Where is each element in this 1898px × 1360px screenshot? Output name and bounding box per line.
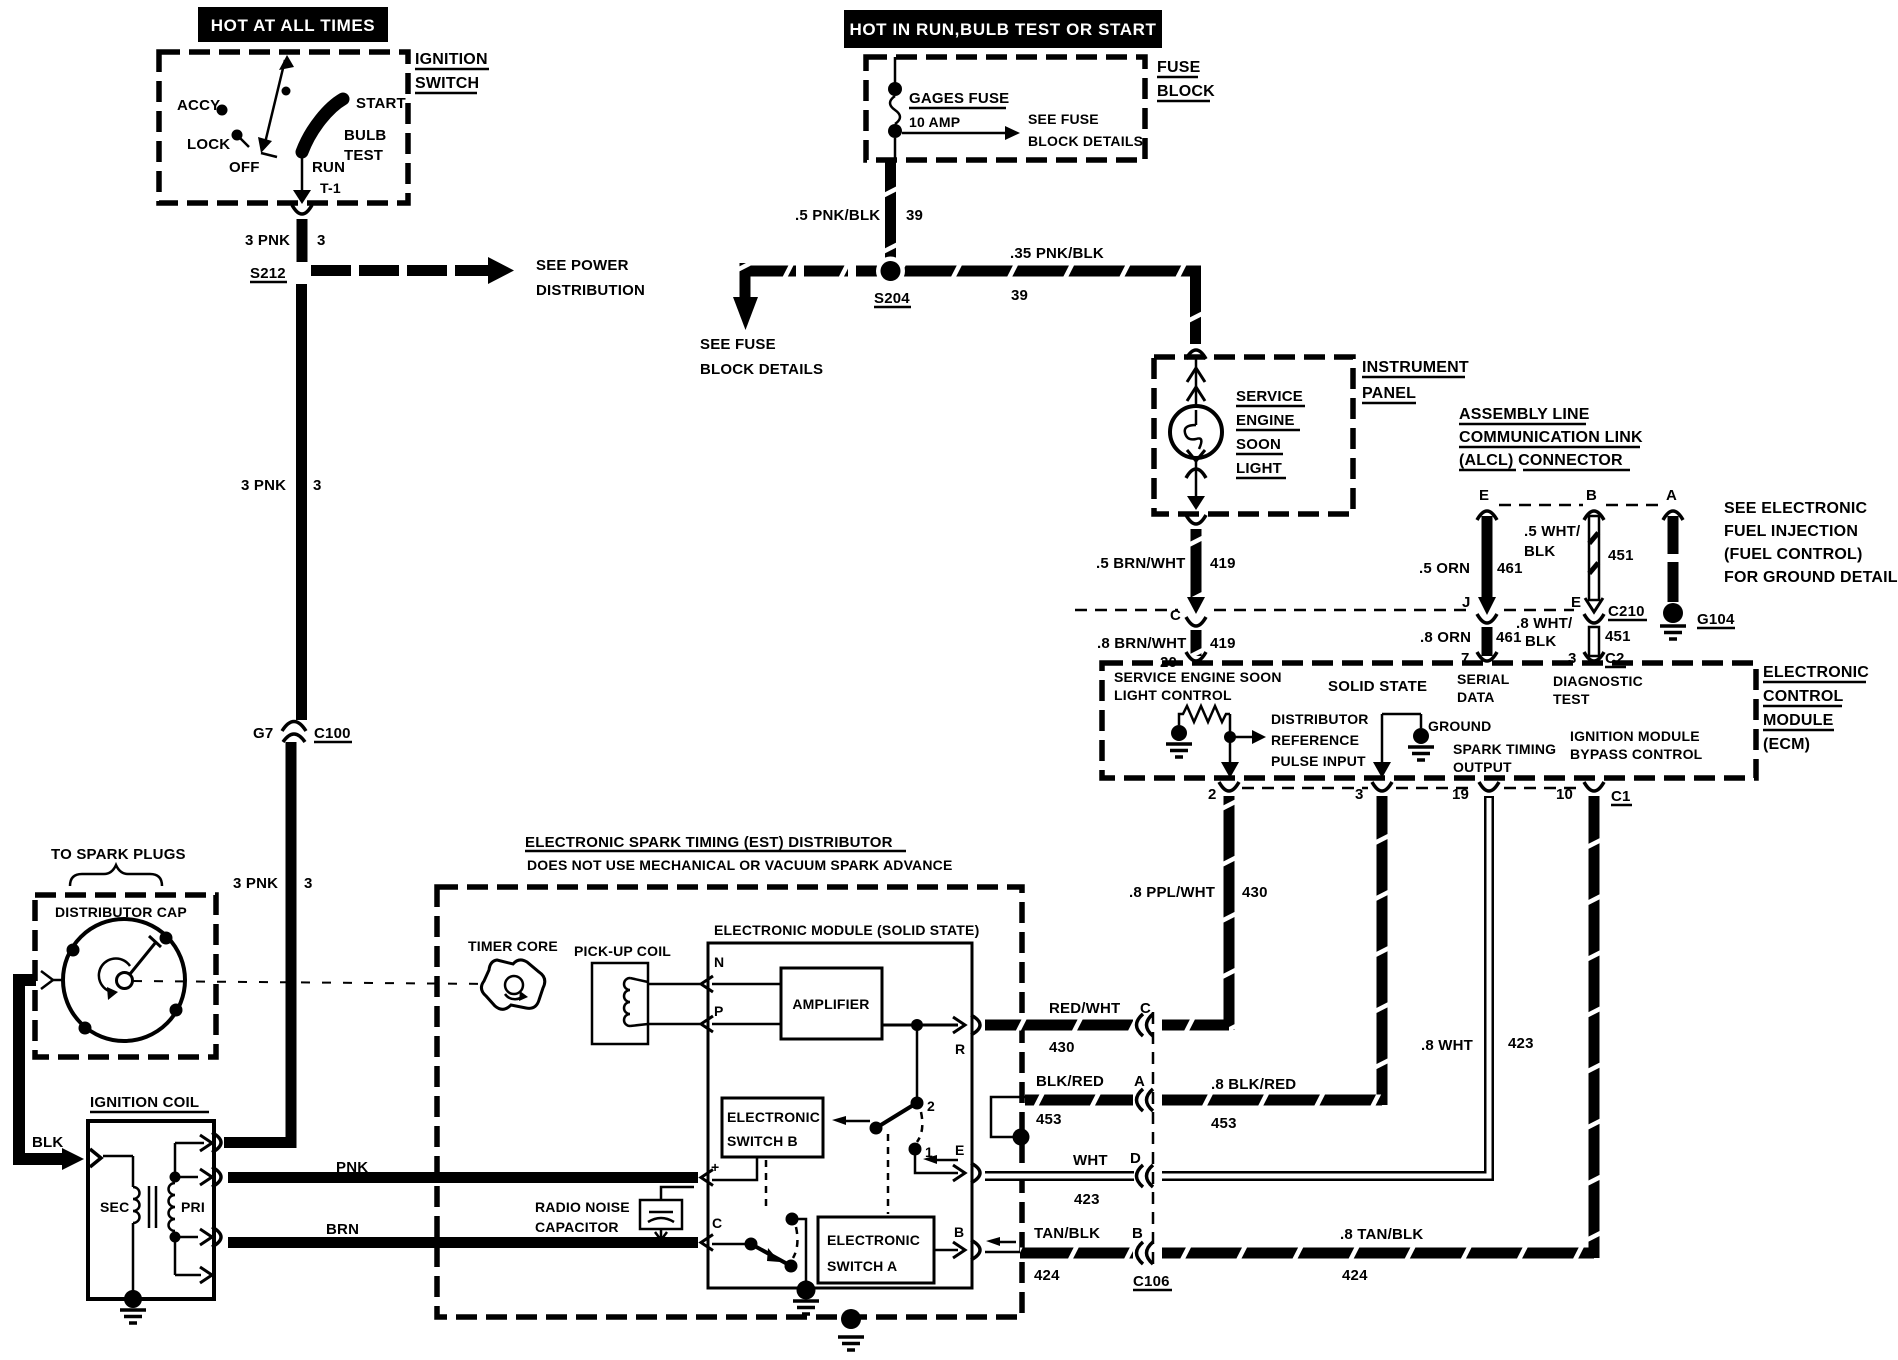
- ECM ground symbol spark timing: [1373, 714, 1434, 778]
- wire BRN coil to module: [228, 1221, 713, 1251]
- svg-text:C100: C100: [314, 725, 351, 742]
- svg-text:TEST: TEST: [1553, 691, 1590, 707]
- label ELECTRONIC SPARK TIMING (EST) DISTRIBUTOR: [525, 834, 953, 873]
- switch contact START and arc to RUN: [302, 95, 406, 152]
- svg-text:SPARK TIMING: SPARK TIMING: [1453, 741, 1556, 757]
- svg-text:.8 BLK/RED: .8 BLK/RED: [1211, 1076, 1296, 1093]
- coil ground: [120, 1290, 146, 1323]
- svg-text:ACCY: ACCY: [177, 97, 220, 114]
- svg-text:GAGES FUSE: GAGES FUSE: [909, 90, 1009, 107]
- label ELECTRONIC CONTROL MODULE (ECM): [1763, 664, 1869, 753]
- label IGNITION MODULE BYPASS CONTROL: [1570, 728, 1703, 762]
- connector C106 dashed line: [1152, 1012, 1155, 1266]
- pick-up coil: [592, 963, 648, 1044]
- svg-text:BLK: BLK: [1524, 543, 1555, 560]
- svg-text:BLK/RED: BLK/RED: [1036, 1073, 1104, 1090]
- svg-text:S212: S212: [250, 265, 286, 282]
- svg-text:430: 430: [1049, 1039, 1075, 1056]
- timer core symbol: [481, 960, 544, 1009]
- svg-text:A: A: [1666, 487, 1677, 504]
- svg-text:10 AMP: 10 AMP: [909, 114, 960, 130]
- arrow into switch B: [832, 1116, 870, 1125]
- dashed line rotor to timer core: [133, 981, 494, 984]
- radio noise capacitor C: [640, 1187, 694, 1240]
- svg-text:SERIAL: SERIAL: [1457, 671, 1510, 687]
- label SERIAL DATA: [1457, 671, 1510, 705]
- electronic switch A box: [818, 1217, 934, 1283]
- header HOT IN RUN,BULB TEST OR START: [844, 10, 1162, 48]
- wire switch A to B output: [934, 1224, 980, 1260]
- module internal ground: [793, 1281, 819, 1315]
- svg-text:B: B: [954, 1224, 964, 1240]
- arrow to fuse block details: [902, 111, 1143, 149]
- svg-text:3: 3: [304, 875, 313, 892]
- fuse block box: [866, 57, 1145, 160]
- svg-text:COMMUNICATION LINK: COMMUNICATION LINK: [1459, 429, 1643, 446]
- svg-text:3 PNK: 3 PNK: [245, 232, 290, 249]
- svg-text:TO SPARK PLUGS: TO SPARK PLUGS: [51, 846, 186, 863]
- svg-text:T-1: T-1: [320, 180, 341, 196]
- svg-text:MODULE: MODULE: [1763, 712, 1834, 729]
- svg-text:CONTROL: CONTROL: [1763, 688, 1844, 705]
- svg-text:2: 2: [927, 1098, 935, 1114]
- transformer core: [149, 1186, 156, 1228]
- svg-text:IGNITION: IGNITION: [415, 51, 488, 68]
- fuse GAGES FUSE 10 AMP: [888, 57, 1009, 160]
- EST distributor box: [437, 887, 1022, 1317]
- wire dashed arrow SEE POWER DISTRIBUTION: [311, 257, 514, 284]
- svg-text:J: J: [1462, 594, 1471, 611]
- svg-text:(ECM): (ECM): [1763, 736, 1810, 753]
- svg-text:39: 39: [1011, 287, 1028, 304]
- svg-text:FOR GROUND DETAIL: FOR GROUND DETAIL: [1724, 569, 1898, 586]
- svg-text:451: 451: [1608, 547, 1634, 564]
- wire .8 BRN/WHT to ECM pin 20: [1097, 617, 1236, 671]
- label SERVICE ENGINE SOON LIGHT: [1236, 388, 1305, 478]
- svg-text:.8 WHT/: .8 WHT/: [1516, 615, 1573, 632]
- ECM pin row C1: [1208, 782, 1632, 805]
- wire BLK spark plug lead: [19, 980, 84, 1170]
- svg-text:461: 461: [1497, 560, 1523, 577]
- svg-text:ENGINE: ENGINE: [1236, 412, 1295, 429]
- ALCL pin E lower .8 ORN: [1420, 614, 1522, 667]
- label DISTRIBUTOR REFERENCE PULSE INPUT: [1271, 711, 1369, 769]
- wire BLK/RED hook to distributor housing: [991, 1095, 1133, 1146]
- label SEE ELECTRONIC FUEL INJECTION: [1724, 500, 1898, 586]
- label 3 PNK 3: [241, 477, 322, 494]
- coil PRI winding: [169, 1143, 205, 1275]
- svg-text:SERVICE: SERVICE: [1236, 388, 1303, 405]
- svg-text:GROUND: GROUND: [1428, 718, 1491, 734]
- wire TAN/BLK module to C106: [985, 1248, 1133, 1259]
- svg-text:BLK: BLK: [32, 1134, 63, 1151]
- connector below ignition switch: [292, 205, 312, 214]
- svg-text:C210: C210: [1608, 603, 1645, 620]
- switch contact ACCY: [177, 97, 228, 116]
- svg-text:RUN: RUN: [312, 159, 345, 176]
- amplifier U1: [781, 968, 882, 1039]
- svg-text:AMPLIFIER: AMPLIFIER: [792, 996, 869, 1012]
- svg-text:PRI: PRI: [181, 1199, 205, 1215]
- wire ignition switch to S212: [297, 219, 308, 262]
- svg-text:C: C: [1170, 607, 1181, 624]
- svg-text:.8 WHT: .8 WHT: [1421, 1037, 1473, 1054]
- svg-text:SEE POWER: SEE POWER: [536, 257, 629, 274]
- wire .5 BRN/WHT: [1096, 529, 1236, 614]
- svg-text:SEE ELECTRONIC: SEE ELECTRONIC: [1724, 500, 1868, 517]
- svg-text:424: 424: [1034, 1267, 1060, 1284]
- svg-text:BYPASS CONTROL: BYPASS CONTROL: [1570, 746, 1703, 762]
- svg-text:.8 ORN: .8 ORN: [1420, 629, 1471, 646]
- svg-text:BLOCK DETAILS: BLOCK DETAILS: [1028, 133, 1143, 149]
- wire into switch B supply: [712, 1157, 757, 1180]
- wire WHT module to C106: [985, 1171, 1134, 1181]
- connector into distributor cap: [41, 971, 64, 989]
- dashed link switch B to lower switch: [765, 1160, 768, 1212]
- svg-text:ELECTRONIC SPARK TIMING (EST): ELECTRONIC SPARK TIMING (EST) DISTRIBUTO…: [525, 834, 893, 851]
- svg-text:PULSE INPUT: PULSE INPUT: [1271, 753, 1366, 769]
- arrow at E: [923, 1142, 965, 1164]
- svg-text:E: E: [1479, 487, 1489, 504]
- switch C blade: [712, 1213, 806, 1284]
- svg-text:SWITCH A: SWITCH A: [827, 1258, 897, 1274]
- dashed link upper to lower contact: [793, 1227, 797, 1258]
- svg-text:453: 453: [1211, 1115, 1237, 1132]
- svg-text:3: 3: [313, 477, 322, 494]
- svg-text:.8 PPL/WHT: .8 PPL/WHT: [1129, 884, 1215, 901]
- svg-text:BRN: BRN: [326, 1221, 359, 1238]
- svg-text:419: 419: [1210, 635, 1236, 652]
- label RADIO NOISE CAPACITOR: [535, 1199, 630, 1235]
- svg-text:453: 453: [1036, 1111, 1062, 1128]
- svg-text:PICK-UP COIL: PICK-UP COIL: [574, 943, 671, 959]
- svg-text:BLK: BLK: [1525, 633, 1556, 650]
- switch contact OFF: [229, 159, 260, 176]
- svg-text:LOCK: LOCK: [187, 136, 230, 153]
- wire C100 to ignition coil: [224, 742, 291, 1143]
- ALCL pin E wire .5 ORN: [1419, 487, 1523, 615]
- ECM light control resistor: [1166, 706, 1266, 778]
- switch B blade: [870, 1104, 916, 1135]
- svg-text:ELECTRONIC: ELECTRONIC: [827, 1232, 920, 1248]
- label ASSEMBLY LINE COMMUNICATION LINK (ALCL) CONNECTOR: [1459, 406, 1643, 470]
- svg-text:3: 3: [317, 232, 326, 249]
- connector below instrument panel: [1186, 515, 1206, 524]
- ALCL dashed connector row: [1499, 504, 1662, 507]
- brace: [70, 865, 162, 886]
- wire .8 BLK/RED pin 3 to C106 A: [1162, 796, 1388, 1132]
- svg-text:.5 PNK/BLK: .5 PNK/BLK: [795, 207, 880, 224]
- svg-text:.5 BRN/WHT: .5 BRN/WHT: [1096, 555, 1186, 572]
- svg-text:HOT AT ALL TIMES: HOT AT ALL TIMES: [211, 16, 375, 35]
- svg-text:SWITCH: SWITCH: [415, 75, 479, 92]
- svg-text:3 PNK: 3 PNK: [233, 875, 278, 892]
- svg-text:A: A: [1134, 1073, 1145, 1090]
- service engine soon light bulb: [1170, 357, 1222, 510]
- svg-text:N: N: [714, 954, 724, 970]
- svg-text:TEST: TEST: [344, 147, 383, 164]
- svg-text:ELECTRONIC MODULE (SOLID STATE: ELECTRONIC MODULE (SOLID STATE): [714, 922, 979, 938]
- svg-text:DISTRIBUTOR: DISTRIBUTOR: [1271, 711, 1369, 727]
- svg-text:C: C: [712, 1215, 722, 1231]
- svg-text:SEC: SEC: [100, 1199, 129, 1215]
- svg-text:S204: S204: [874, 290, 910, 307]
- svg-text:SOLID STATE: SOLID STATE: [1328, 678, 1427, 695]
- svg-text:OUTPUT: OUTPUT: [1453, 759, 1512, 775]
- electronic switch B box: [722, 1098, 823, 1157]
- wire contact 1 to E output: [915, 1149, 980, 1183]
- svg-text:SOON: SOON: [1236, 436, 1281, 453]
- svg-text:R: R: [955, 1041, 965, 1057]
- svg-text:DISTRIBUTION: DISTRIBUTION: [536, 282, 645, 299]
- svg-text:451: 451: [1605, 628, 1631, 645]
- svg-text:CAPACITOR: CAPACITOR: [535, 1219, 619, 1235]
- ignition coil box: [88, 1121, 214, 1299]
- header HOT AT ALL TIMES: [198, 7, 388, 42]
- svg-text:.8 BRN/WHT: .8 BRN/WHT: [1097, 635, 1187, 652]
- svg-text:REFERENCE: REFERENCE: [1271, 732, 1359, 748]
- ignition switch box: [159, 52, 408, 203]
- svg-text:LIGHT: LIGHT: [1236, 460, 1282, 477]
- switch wiper arm: [258, 55, 294, 157]
- C106 labels: [1034, 1000, 1172, 1290]
- instrument panel box: [1154, 357, 1353, 514]
- svg-text:.5 ORN: .5 ORN: [1419, 560, 1470, 577]
- svg-text:DIAGNOSTIC: DIAGNOSTIC: [1553, 673, 1643, 689]
- svg-text:430: 430: [1242, 884, 1268, 901]
- label DIAGNOSTIC TEST: [1553, 673, 1643, 707]
- svg-text:DOES NOT USE MECHANICAL OR VAC: DOES NOT USE MECHANICAL OR VACUUM SPARK …: [527, 857, 953, 873]
- svg-text:+: +: [711, 1159, 719, 1175]
- connector C100: [253, 722, 352, 743]
- svg-text:B: B: [1586, 487, 1597, 504]
- svg-text:C1: C1: [1611, 788, 1631, 805]
- dashed link switch B pivot to switch A: [887, 1134, 890, 1214]
- svg-text:B: B: [1132, 1225, 1143, 1242]
- ALCL pin B wire .5 WHT/BLK: [1524, 487, 1634, 612]
- svg-text:PANEL: PANEL: [1362, 385, 1416, 402]
- wire junction to switch contact 2: [911, 1025, 936, 1114]
- wire S212 to C100: [296, 284, 307, 720]
- EST housing ground: [838, 1309, 864, 1350]
- svg-text:424: 424: [1342, 1267, 1368, 1284]
- wire .5 PNK/BLK fuse to S204: [885, 160, 896, 263]
- coil input connector (BLK): [90, 1149, 101, 1167]
- svg-text:WHT: WHT: [1073, 1152, 1108, 1169]
- wire .8 TAN/BLK pin 10 to C106 B: [1162, 796, 1600, 1284]
- switch contact LOCK: [187, 130, 249, 154]
- wire .35 PNK/BLK S204 to instrument panel: [876, 245, 1206, 359]
- label IGNITION COIL: [90, 1094, 209, 1112]
- svg-text:LIGHT CONTROL: LIGHT CONTROL: [1114, 687, 1232, 703]
- svg-text:FUSE: FUSE: [1157, 59, 1201, 76]
- svg-text:BLOCK: BLOCK: [1157, 83, 1215, 100]
- label SEE POWER DISTRIBUTION: [536, 257, 645, 299]
- svg-text:RED/WHT: RED/WHT: [1049, 1000, 1120, 1017]
- distributor cap box: [35, 895, 216, 1057]
- svg-text:.5 WHT/: .5 WHT/: [1524, 523, 1581, 540]
- svg-text:TIMER CORE: TIMER CORE: [468, 938, 558, 954]
- svg-text:(FUEL CONTROL): (FUEL CONTROL): [1724, 546, 1863, 563]
- svg-text:423: 423: [1074, 1191, 1100, 1208]
- label BULB TEST: [344, 127, 386, 164]
- pick-up coil wires to module: [648, 976, 713, 1032]
- coil terminal chevrons: [200, 1133, 221, 1284]
- svg-text:SEE FUSE: SEE FUSE: [1028, 111, 1099, 127]
- arrow at B output: [986, 1237, 1016, 1246]
- C106 connectors: [1137, 1014, 1154, 1264]
- svg-text:OFF: OFF: [229, 159, 260, 176]
- label INSTRUMENT PANEL: [1362, 359, 1469, 403]
- label SERVICE ENGINE SOON LIGHT CONTROL: [1114, 669, 1282, 703]
- label 3 PNK 3: [233, 875, 313, 892]
- svg-text:SERVICE ENGINE SOON: SERVICE ENGINE SOON: [1114, 669, 1282, 685]
- node S204: [874, 261, 911, 307]
- svg-text:419: 419: [1210, 555, 1236, 572]
- node S212: [250, 265, 287, 282]
- svg-text:SWITCH B: SWITCH B: [727, 1133, 798, 1149]
- svg-text:C: C: [1140, 1000, 1151, 1017]
- svg-text:ELECTRONIC: ELECTRONIC: [1763, 664, 1869, 681]
- svg-text:E: E: [955, 1142, 965, 1158]
- label SPARK TIMING OUTPUT: [1453, 741, 1556, 775]
- svg-text:PNK: PNK: [336, 1159, 368, 1176]
- svg-text:BLOCK DETAILS: BLOCK DETAILS: [700, 361, 823, 378]
- svg-text:E: E: [1571, 594, 1581, 611]
- svg-text:3 PNK: 3 PNK: [241, 477, 286, 494]
- ALCL pin A wire to G104: [1660, 487, 1735, 639]
- svg-text:HOT IN RUN,BULB TEST OR START: HOT IN RUN,BULB TEST OR START: [849, 20, 1156, 39]
- coil SEC winding: [100, 1156, 140, 1295]
- wire PNK coil to module: [228, 1159, 713, 1186]
- svg-text:TAN/BLK: TAN/BLK: [1034, 1225, 1100, 1242]
- svg-text:G7: G7: [253, 725, 273, 742]
- ECM box: [1102, 663, 1756, 778]
- svg-text:IGNITION COIL: IGNITION COIL: [90, 1094, 199, 1111]
- svg-text:P: P: [714, 1003, 724, 1019]
- svg-text:FUEL INJECTION: FUEL INJECTION: [1724, 523, 1858, 540]
- svg-text:.8 TAN/BLK: .8 TAN/BLK: [1340, 1226, 1423, 1243]
- svg-text:RADIO NOISE: RADIO NOISE: [535, 1199, 630, 1215]
- wire RUN to box bottom with arrow: [293, 156, 311, 204]
- dashed link contact 2 to contact 1: [917, 1112, 922, 1142]
- wire amplifier to R output: [882, 1015, 980, 1057]
- wire .8 WHT pin 19 to C106 D: [1162, 796, 1534, 1176]
- label FUSE BLOCK: [1157, 59, 1215, 101]
- svg-text:ELECTRONIC: ELECTRONIC: [727, 1109, 820, 1125]
- svg-text:DATA: DATA: [1457, 689, 1495, 705]
- wire .8 PPL/WHT pin 2 to C106 C: [1129, 796, 1268, 1031]
- svg-text:START: START: [356, 95, 406, 112]
- label 3 PNK 3: [245, 232, 326, 249]
- svg-text:ASSEMBLY LINE: ASSEMBLY LINE: [1459, 406, 1590, 423]
- connector row C210 dashed: [1075, 594, 1647, 624]
- wire RED/WHT module to C106: [985, 1020, 1133, 1031]
- svg-text:IGNITION MODULE: IGNITION MODULE: [1570, 728, 1700, 744]
- svg-text:G104: G104: [1697, 611, 1735, 628]
- svg-text:INSTRUMENT: INSTRUMENT: [1362, 359, 1469, 376]
- ALCL pin B lower .8 WHT/BLK: [1516, 614, 1631, 667]
- electronic module box: [708, 943, 972, 1288]
- svg-text:SEE FUSE: SEE FUSE: [700, 336, 776, 353]
- svg-text:423: 423: [1508, 1035, 1534, 1052]
- svg-text:D: D: [1130, 1150, 1141, 1167]
- svg-text:39: 39: [906, 207, 923, 224]
- svg-text:(ALCL) CONNECTOR: (ALCL) CONNECTOR: [1459, 452, 1623, 469]
- svg-text:.35 PNK/BLK: .35 PNK/BLK: [1010, 245, 1104, 262]
- switch contact 1: [909, 1143, 934, 1161]
- svg-text:BULB: BULB: [344, 127, 386, 144]
- distributor cap circle: [63, 919, 185, 1041]
- svg-text:C106: C106: [1133, 1273, 1170, 1290]
- label IGNITION SWITCH: [415, 51, 489, 93]
- svg-text:2: 2: [1208, 786, 1217, 803]
- wire dashed to see fuse block details: [700, 263, 880, 378]
